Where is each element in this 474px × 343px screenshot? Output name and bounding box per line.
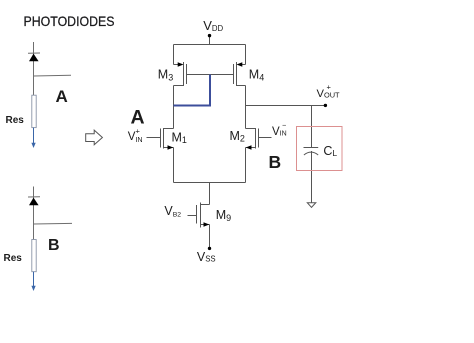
svg-text:−: − <box>282 121 286 130</box>
svg-text:Res: Res <box>6 115 25 126</box>
svg-text:M1: M1 <box>172 131 187 146</box>
svg-text:+: + <box>136 127 141 136</box>
svg-text:M4: M4 <box>249 68 264 83</box>
svg-text:VDD: VDD <box>203 18 223 33</box>
svg-text:M9: M9 <box>216 208 231 223</box>
svg-text:B: B <box>269 152 282 172</box>
svg-text:CL: CL <box>323 144 337 158</box>
svg-text:M2: M2 <box>230 129 245 144</box>
svg-text:M3: M3 <box>158 68 173 83</box>
svg-text:B: B <box>48 237 60 254</box>
svg-text:VB2: VB2 <box>164 204 181 219</box>
svg-text:A: A <box>56 87 68 106</box>
svg-text:PHOTODIODES: PHOTODIODES <box>24 14 115 29</box>
svg-text:VSS: VSS <box>197 250 216 264</box>
svg-text:+: + <box>327 83 332 92</box>
svg-text:A: A <box>131 107 145 129</box>
svg-text:Res: Res <box>4 253 23 264</box>
